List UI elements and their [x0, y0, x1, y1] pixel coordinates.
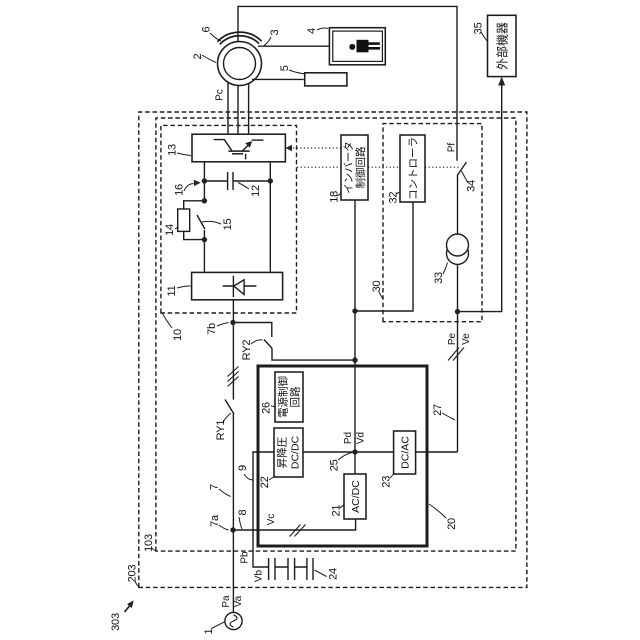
svg-text:25: 25 [329, 459, 341, 471]
svg-text:32: 32 [388, 192, 400, 204]
svg-text:8: 8 [237, 509, 249, 515]
svg-text:9: 9 [237, 465, 249, 471]
svg-text:303: 303 [110, 613, 122, 631]
svg-text:DC/AC: DC/AC [400, 436, 412, 469]
svg-text:27: 27 [432, 404, 444, 416]
svg-text:RY1: RY1 [215, 420, 227, 441]
svg-text:Pf: Pf [447, 143, 458, 153]
svg-text:7b: 7b [206, 323, 218, 335]
svg-text:6: 6 [201, 26, 213, 32]
svg-text:4: 4 [306, 28, 318, 34]
svg-text:昇降圧: 昇降圧 [276, 436, 289, 468]
svg-text:2: 2 [192, 53, 204, 59]
svg-text:電源制御: 電源制御 [277, 376, 290, 418]
svg-text:インバータ: インバータ [343, 141, 355, 194]
svg-text:外部機器: 外部機器 [495, 22, 510, 70]
svg-text:21: 21 [331, 505, 343, 517]
svg-text:Pb: Pb [240, 551, 251, 564]
svg-text:DC/DC: DC/DC [290, 435, 302, 469]
svg-text:10: 10 [172, 329, 184, 341]
svg-text:12: 12 [250, 185, 262, 197]
svg-text:Vb: Vb [254, 569, 265, 582]
svg-text:13: 13 [167, 144, 179, 156]
svg-text:20: 20 [446, 518, 458, 530]
svg-text:34: 34 [466, 180, 478, 192]
svg-text:16: 16 [174, 184, 186, 196]
svg-text:回路: 回路 [289, 386, 302, 407]
svg-text:7: 7 [209, 484, 221, 490]
svg-text:3: 3 [269, 29, 281, 35]
svg-text:Pa: Pa [221, 595, 232, 608]
svg-text:23: 23 [381, 476, 393, 488]
svg-text:30: 30 [371, 281, 383, 293]
svg-text:制御回路: 制御回路 [354, 146, 367, 188]
svg-text:Pd: Pd [343, 432, 354, 444]
svg-text:203: 203 [127, 565, 139, 583]
svg-text:7a: 7a [209, 514, 221, 527]
svg-text:14: 14 [164, 224, 176, 236]
svg-text:5: 5 [279, 65, 291, 71]
svg-text:Va: Va [233, 595, 244, 607]
svg-text:18: 18 [329, 191, 341, 203]
svg-text:11: 11 [166, 285, 178, 296]
svg-text:1: 1 [203, 628, 215, 634]
svg-text:22: 22 [259, 476, 271, 488]
svg-text:RY2: RY2 [241, 340, 253, 361]
svg-text:26: 26 [261, 402, 273, 414]
svg-text:24: 24 [328, 568, 340, 580]
svg-text:Pe: Pe [447, 332, 458, 345]
svg-text:Pc: Pc [215, 89, 226, 101]
svg-text:Vc: Vc [266, 514, 277, 526]
svg-text:15: 15 [222, 219, 234, 231]
svg-text:33: 33 [433, 272, 445, 284]
svg-text:Vd: Vd [356, 432, 367, 444]
svg-text:Ve: Ve [461, 333, 472, 345]
svg-text:コントローラ: コントローラ [408, 137, 420, 200]
svg-text:AC/DC: AC/DC [350, 480, 362, 513]
svg-text:35: 35 [473, 22, 485, 34]
svg-text:103: 103 [143, 534, 155, 552]
